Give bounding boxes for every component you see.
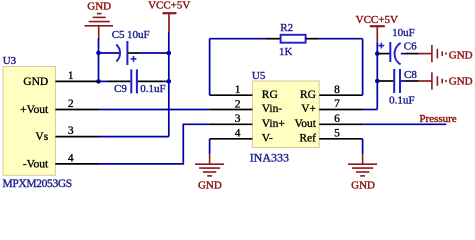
- ground GND bottom-right: [348, 154, 377, 176]
- wire GND stem down to pin1 row: [98, 38, 100, 81]
- U3 pin 3 Vs: [55, 136, 98, 138]
- svg-text:RG: RG: [262, 89, 278, 101]
- svg-text:6: 6: [334, 113, 340, 125]
- svg-text:1: 1: [235, 84, 241, 96]
- svg-text:-Vout: -Vout: [23, 158, 49, 170]
- wire Vs to VCC rail: [99, 136, 169, 138]
- svg-text:INA333: INA333: [250, 150, 289, 164]
- svg-text:2: 2: [235, 98, 241, 110]
- ground GND1 top-left: [85, 14, 114, 39]
- U5 component INA333: [252, 81, 319, 148]
- svg-text:V-: V-: [262, 133, 273, 145]
- svg-text:10uF: 10uF: [127, 29, 150, 41]
- svg-text:VCC+5V: VCC+5V: [356, 14, 398, 26]
- U5 pin 7 V+: [319, 109, 362, 111]
- U5 pin 2 Vin-: [210, 109, 253, 111]
- capacitor C5 10uF: [99, 52, 120, 54]
- svg-text:4: 4: [235, 128, 241, 140]
- svg-text:2: 2: [68, 98, 74, 110]
- svg-text:Pressure: Pressure: [419, 113, 456, 125]
- wire RG loop top left: [210, 38, 266, 40]
- capacitor C9 0.1uF: [99, 80, 109, 82]
- wire +Vout to Vin-: [99, 109, 210, 111]
- junction dots right: [375, 51, 380, 83]
- U5 pin 1 RG: [210, 94, 253, 96]
- svg-text:1: 1: [68, 70, 74, 82]
- ground GND right2: [432, 72, 446, 89]
- capacitor C8 0.1uF: [377, 80, 379, 82]
- junction dots left: [96, 51, 171, 84]
- resistor R1 R2 1K: [266, 38, 281, 40]
- ground GND right1: [432, 45, 446, 62]
- svg-text:U3: U3: [3, 55, 17, 67]
- svg-text:C5: C5: [112, 29, 125, 41]
- U3 pin 2 +Vout: [55, 109, 98, 111]
- svg-text:0.1uF: 0.1uF: [389, 94, 414, 106]
- U5 pin 6 Vout: [319, 123, 362, 125]
- U3 pin 1 GND: [55, 80, 98, 82]
- ground GND bottom-mid: [195, 154, 224, 176]
- svg-text:8: 8: [334, 84, 340, 96]
- wire left VCC rail: [168, 31, 170, 136]
- svg-text:MPXM2053GS: MPXM2053GS: [3, 178, 72, 190]
- svg-text:Vout: Vout: [294, 118, 316, 130]
- svg-text:GND: GND: [198, 180, 222, 192]
- svg-text:GND: GND: [23, 76, 48, 88]
- U5 pin 3 Vin+: [210, 123, 253, 125]
- svg-text:Vs: Vs: [35, 131, 48, 143]
- U3 component MPXM2053GS: [3, 67, 55, 176]
- svg-text:GND: GND: [449, 49, 473, 61]
- wire V- down: [209, 139, 211, 155]
- svg-text:GND: GND: [351, 180, 375, 192]
- U5 pin 8 RG: [319, 94, 362, 96]
- svg-text:7: 7: [334, 98, 340, 110]
- svg-text:C8: C8: [404, 69, 417, 81]
- svg-text:10uF: 10uF: [392, 27, 415, 39]
- svg-text:GND: GND: [87, 0, 111, 12]
- U5 pin 4 V-: [210, 138, 253, 140]
- wire V+ to rail: [363, 109, 378, 111]
- svg-text:VCC+5V: VCC+5V: [148, 0, 190, 11]
- wire RG loop right vertical: [362, 39, 364, 95]
- wire RG loop left vertical: [209, 39, 211, 95]
- svg-text:RG: RG: [300, 89, 316, 101]
- U5 pin 5 Ref: [319, 138, 362, 140]
- svg-text:5: 5: [334, 127, 340, 139]
- svg-text:R2: R2: [280, 22, 293, 34]
- wire right VCC rail: [376, 42, 378, 109]
- svg-text:3: 3: [235, 113, 241, 125]
- svg-text:3: 3: [68, 125, 74, 137]
- svg-text:C6: C6: [404, 40, 417, 52]
- svg-text:C9: C9: [114, 83, 127, 95]
- wire Vout to Pressure: [363, 123, 447, 125]
- svg-text:4: 4: [68, 152, 74, 164]
- svg-text:1K: 1K: [279, 46, 293, 58]
- svg-text:Vin-: Vin-: [262, 103, 283, 115]
- capacitor C6 10uF: [377, 53, 379, 55]
- U3 pin 4 -Vout: [55, 163, 98, 165]
- svg-text:Vin+: Vin+: [262, 118, 285, 130]
- wire -Vout to Vin+: [99, 124, 210, 164]
- svg-text:V+: V+: [301, 103, 316, 115]
- wire Ref down: [362, 139, 364, 155]
- svg-text:+Vout: +Vout: [20, 104, 49, 116]
- svg-text:Ref: Ref: [299, 133, 316, 145]
- svg-text:U5: U5: [252, 70, 266, 82]
- wire RG loop top right: [319, 38, 363, 40]
- svg-text:0.1uF: 0.1uF: [140, 83, 165, 95]
- svg-text:GND: GND: [449, 75, 473, 87]
